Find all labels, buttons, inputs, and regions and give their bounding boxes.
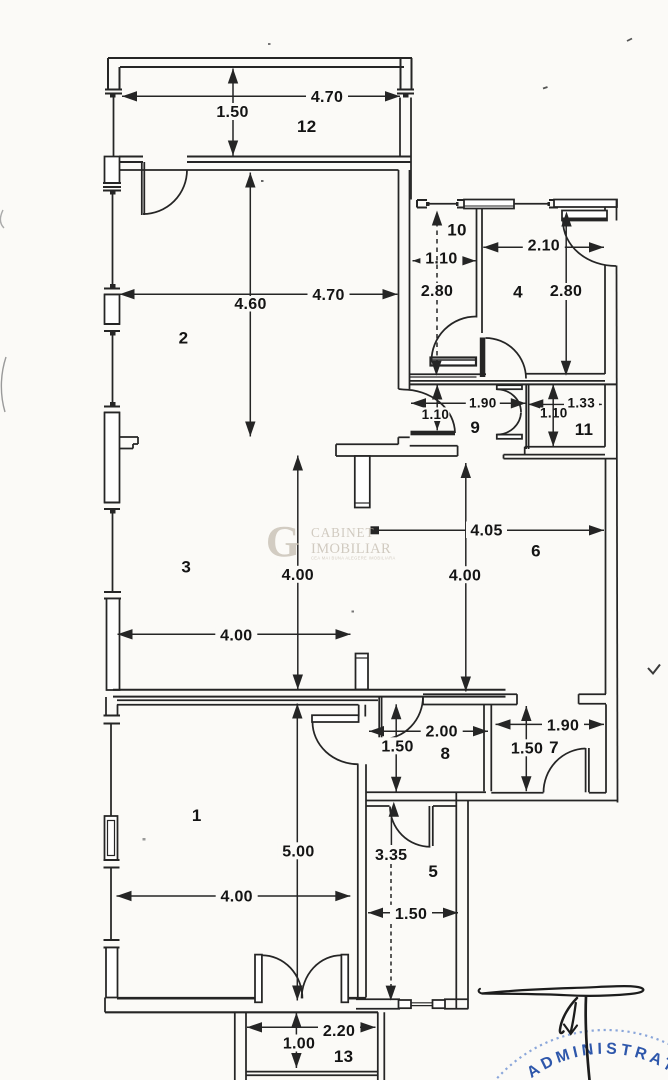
svg-text:9: 9 — [470, 418, 480, 437]
wall: balcony 13 bottom edge — [246, 1071, 378, 1073]
dimension: room 7 height 1.50 — [525, 706, 527, 791]
svg-text:13: 13 — [334, 1047, 354, 1066]
svg-text:1.10: 1.10 — [422, 407, 449, 422]
svg-text:4.00: 4.00 — [221, 889, 253, 906]
wall: rooms 3/6 bottom wall — [113, 689, 506, 691]
dimension: room 11 horizontal line — [528, 403, 602, 405]
door: room 4 bottom leaf (dark) — [480, 338, 486, 378]
wall: partition 9|11 — [525, 384, 527, 449]
door: room 5 swing arc — [390, 807, 430, 847]
wall: left solid band (room 3) — [107, 599, 120, 691]
wall: left wall junction verticals — [105, 697, 107, 716]
window: left wall cap 7 — [104, 715, 121, 717]
svg-text:4.60: 4.60 — [234, 296, 266, 313]
window: balcony right end cap — [397, 89, 414, 91]
wall: hall bottom band — [366, 791, 486, 793]
svg-text:1.50: 1.50 — [395, 906, 427, 923]
svg-text:1.90: 1.90 — [547, 717, 579, 734]
artifact: dot room 6 — [352, 611, 355, 613]
dimension: room 2 width 4.70 — [120, 293, 398, 295]
window: left wall cap 6 — [104, 591, 121, 593]
dimension: room 5 height 3.35 — [390, 818, 392, 845]
artifact: speck near top — [268, 43, 271, 45]
artifact: faint arc left edge — [1, 357, 6, 412]
dimension: room 2 label 4.60 — [229, 296, 272, 312]
wall: balcony 12 inner top line — [120, 66, 404, 68]
svg-text:5: 5 — [428, 862, 438, 881]
dimension: hall 9 height 1.10 — [436, 385, 438, 431]
door: room 8 swing arc — [381, 697, 423, 740]
dimension: room 5 width 1.50 — [368, 912, 458, 914]
svg-text:1: 1 — [192, 806, 202, 825]
dimension: room 4 width 2.10 — [483, 246, 604, 248]
svg-text:4.00: 4.00 — [449, 567, 481, 584]
wall: left window line segment 4 — [110, 724, 112, 817]
window: left wall cap 3 with nub — [104, 323, 120, 325]
window: rooms 10/4 top cap A — [417, 199, 427, 201]
svg-text:5.00: 5.00 — [282, 844, 314, 861]
window: left wall cap 8 — [104, 859, 120, 861]
svg-text:4.00: 4.00 — [282, 567, 314, 584]
artifact: small check mark right side — [648, 665, 660, 674]
wall: room 7 door jambs — [516, 694, 518, 704]
door: 9|11 upper swing arc — [497, 389, 521, 412]
svg-text:4: 4 — [513, 283, 523, 302]
artifact: dot room 1 — [143, 838, 146, 841]
door: room 4 bottom swing arc — [486, 338, 527, 379]
window: left wall cap 2 with nub — [110, 284, 116, 289]
window: left wall cap 9 — [104, 939, 120, 941]
door: hall 9 south leaf (dark) — [411, 431, 456, 436]
window: rooms 10/4 top cap C — [549, 199, 558, 201]
wall: room 7 bottom inner line — [491, 792, 543, 794]
door: room 1 south double door right arc — [302, 955, 342, 998]
window: left wall block 1 — [105, 157, 120, 184]
svg-text:4.70: 4.70 — [311, 89, 343, 106]
window: left wall block 4 (room 1 window) — [105, 816, 118, 860]
door: room 7 leaf — [585, 748, 587, 792]
wall: top wall left end closure — [118, 157, 120, 171]
svg-text:2: 2 — [179, 329, 189, 348]
door: room 1 south double door left arc — [262, 955, 303, 998]
window: rooms 10/4 window line 1 — [430, 203, 458, 205]
wall: room 5 bottom wall — [356, 998, 400, 1000]
dimension: room 8 width 2.00 — [369, 730, 488, 732]
svg-text:4.70: 4.70 — [312, 287, 344, 304]
dimension: kitchen width 4.05 — [371, 529, 604, 531]
svg-text:4.00: 4.00 — [220, 628, 252, 645]
door: room 2 entrance leaf — [141, 162, 143, 215]
wall: room 8 door jamb — [422, 696, 424, 705]
dimension: room 10 width 1.10 — [413, 260, 476, 262]
dimension: room 10 height 2.80 — [436, 222, 438, 283]
wall: left window line segment 5 — [110, 868, 112, 941]
wall: segment right of double door — [348, 997, 366, 1000]
wall: partition 10|4 — [476, 208, 478, 318]
wall: balcony left thin line down to apartment — [113, 98, 115, 157]
window: left wall cap 5 with nub — [104, 502, 120, 504]
svg-text:7: 7 — [549, 738, 559, 757]
wall: right exterior outer line main — [617, 266, 618, 803]
svg-text:12: 12 — [297, 117, 317, 136]
window: rooms 10/4 window line 2 — [514, 203, 549, 205]
wall: rooms 10/4 bottom thin lines — [410, 373, 486, 375]
wall: kitchen stub pillar — [356, 654, 369, 690]
door: room 1 leaf bar — [312, 715, 359, 722]
wall: room 8 / room 7 top wall outer — [423, 693, 517, 695]
wall: hall west corner — [399, 388, 404, 391]
wall: rooms 9/11 bottom wall — [525, 446, 605, 448]
svg-text:10: 10 — [447, 221, 467, 240]
dimension: hall 9 width 1.90 — [411, 402, 526, 404]
signature: handwritten signature strokes — [479, 986, 644, 1080]
wall: balcony 12 left side lines — [107, 58, 109, 90]
dimension: room 2 height vertical line — [249, 173, 251, 437]
door: room 4 right swing arc — [563, 221, 616, 266]
wall: left solid band (room 1 bottom) — [106, 948, 118, 998]
wall: rooms 10/4 bottom band — [410, 380, 605, 382]
door: room 10 swing arc — [432, 317, 477, 362]
wall: top wall outer line (right of door) — [187, 156, 411, 158]
wall: right exterior outer line top — [616, 200, 618, 221]
svg-text:4.05: 4.05 — [470, 522, 502, 539]
wall: balcony right wall band down — [399, 98, 401, 157]
wall: left wall interior tab (wall 2/3 stub) — [120, 436, 139, 438]
wall: room 2 right wall right line — [409, 170, 411, 389]
svg-text:2.80: 2.80 — [421, 283, 453, 300]
svg-text:2.00: 2.00 — [426, 724, 458, 741]
svg-text:1.50: 1.50 — [216, 104, 248, 121]
door: hall 9 south swing arc — [403, 390, 455, 434]
dimension: room 11 label 1.10 — [540, 408, 568, 420]
door: room 10 leaf bar — [431, 358, 477, 366]
dimension: room 1 width 4.00 — [117, 895, 351, 897]
svg-text:8: 8 — [441, 744, 451, 763]
window: left wall cap 4 with nub — [110, 402, 116, 407]
wall: left window line segment 2 — [112, 336, 114, 403]
wall: balcony 13 left wall — [234, 1012, 236, 1080]
wall: room 1 bottom-left corner — [104, 998, 106, 1013]
svg-text:3.35: 3.35 — [375, 847, 407, 864]
wall: rooms 4 top solid band — [554, 200, 617, 208]
wall: left window line segment 1 — [112, 195, 114, 285]
wall: balcony 12 right side lines — [400, 58, 402, 90]
svg-text:1.50: 1.50 — [511, 741, 543, 758]
wall: room 5 top wall edge — [366, 805, 390, 807]
dimension: balcony 1.50 vertical — [232, 69, 234, 156]
wall: balcony 13 right wall — [377, 1012, 379, 1080]
wall: T-wall stem pillar — [355, 456, 370, 508]
door: room 1 swing arc — [313, 722, 359, 764]
svg-text:6: 6 — [531, 542, 541, 561]
artifact: speck top right — [627, 39, 632, 42]
svg-text:1.90: 1.90 — [469, 395, 496, 410]
wall: top wall outer line (left of door) — [119, 156, 143, 158]
window: room 5 bottom window — [399, 1000, 412, 1008]
wall: right exterior inner line segments — [604, 207, 606, 221]
dimension: balcony 13 width 2.20 — [247, 1026, 376, 1028]
dimension: room 1 height 5.00 — [296, 704, 298, 1001]
stamp: blue ADMINISTRAT round stamp — [459, 1030, 668, 1080]
door: room 1 south double door left leaf — [255, 955, 262, 1003]
svg-text:1.10: 1.10 — [425, 250, 457, 267]
svg-text:2.20: 2.20 — [323, 1023, 355, 1040]
svg-text:G: G — [266, 517, 300, 566]
door: room 2 entrance swing arc — [143, 170, 187, 214]
svg-text:2.10: 2.10 — [528, 238, 560, 255]
window: rooms 10/4 top cap B — [457, 199, 467, 201]
wall: hall 9 bottom T-wall band — [336, 443, 398, 445]
wall: balcony 12 outer top line — [108, 57, 412, 59]
svg-text:CABINET: CABINET — [311, 525, 374, 540]
svg-text:2.80: 2.80 — [550, 283, 582, 300]
artifact: faint mark left edge 2 — [0, 210, 4, 228]
door: 9|11 upper leaf bar — [497, 385, 522, 389]
wall: room 1 bottom wall inner — [117, 997, 255, 1000]
watermark: CABINET IMOBILIAR logo — [266, 517, 396, 566]
window: left wall cap 1 — [103, 182, 121, 184]
wall: left window line segment 3 — [112, 514, 114, 593]
wall: top wall inner line — [120, 169, 399, 171]
wall: room 5 right wall — [455, 792, 457, 1009]
wall: room 1 bottom wall outer — [105, 1011, 378, 1013]
wall: top wall second line (right of door) — [187, 161, 411, 163]
svg-text:1.00: 1.00 — [283, 1036, 315, 1053]
dimension: room 7 width 1.90 — [496, 723, 605, 725]
dimension: balcony 4.70 horizontal — [122, 95, 400, 97]
window: left wall block 2 — [105, 295, 120, 325]
dimension: room 4 height 2.80 — [565, 224, 567, 283]
window: balcony left end cap — [105, 89, 122, 91]
door: room 7 swing arc — [544, 749, 586, 793]
window: rooms 10/4 block — [464, 200, 514, 209]
dimension: room 3 width 4.00 — [118, 633, 351, 635]
dimension: room 11 height vertical — [552, 384, 554, 446]
dimension: hall height 1.50 — [395, 704, 397, 792]
door: room 5 leaf — [428, 806, 430, 846]
svg-text:CEA MAI BUNA ALEGERE IMOBILIAR: CEA MAI BUNA ALEGERE IMOBILIARA — [311, 556, 396, 561]
svg-text:3: 3 — [181, 558, 191, 577]
wall: room 1 right wall lower / room 5 left wall — [357, 764, 359, 997]
wall: room 1 right wall upper — [358, 705, 360, 717]
wall: top wall second line (left of door) — [119, 161, 143, 163]
wall: room 2 right wall left line — [398, 170, 400, 389]
svg-text:1.33: 1.33 — [568, 396, 596, 411]
door: room 4 right leaf bar — [562, 211, 607, 221]
door: 9|11 lower leaf bar — [497, 435, 522, 439]
svg-text:11: 11 — [575, 420, 594, 439]
wall: partition 8|7 — [483, 705, 485, 791]
artifact: speck top middle — [543, 87, 548, 89]
dimension: room 6 height 4.00 — [465, 463, 467, 692]
svg-text:1.50: 1.50 — [381, 739, 413, 756]
dimension: room 3 height 4.00 — [297, 456, 299, 690]
door: 9|11 lower swing arc — [497, 412, 521, 434]
door: room 1 south double door right leaf — [341, 955, 348, 1003]
door: room 8 leaf — [378, 696, 380, 744]
wall: room 1 top wall — [117, 699, 378, 701]
wall: room 8 / room 7 top wall inner — [423, 704, 517, 706]
door: room 8 leaf end cap — [377, 744, 383, 748]
window: left wall block 3 (tall) — [105, 413, 120, 503]
dimension: balcony 13 height 1.00 — [295, 1013, 297, 1068]
artifact: dot near door — [261, 180, 264, 182]
